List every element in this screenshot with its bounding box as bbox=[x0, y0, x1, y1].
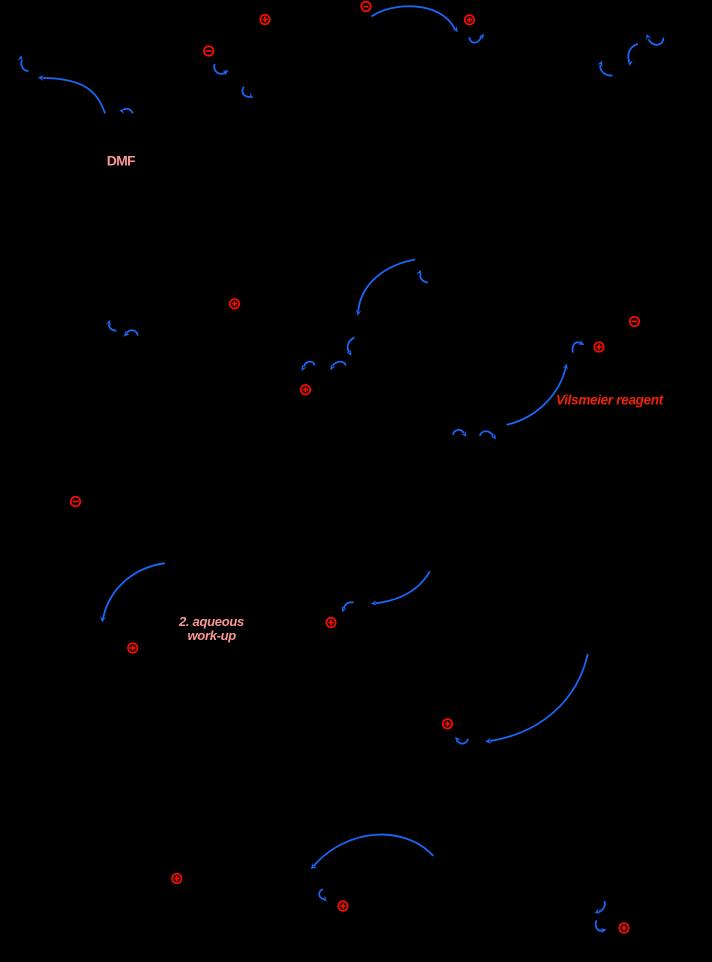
svg-text:Vilsmeier reagent: Vilsmeier reagent bbox=[556, 393, 664, 408]
svg-text:2. aqueous: 2. aqueous bbox=[178, 614, 244, 629]
svg-text:work-up: work-up bbox=[188, 628, 237, 643]
svg-text:DMF: DMF bbox=[107, 153, 136, 169]
